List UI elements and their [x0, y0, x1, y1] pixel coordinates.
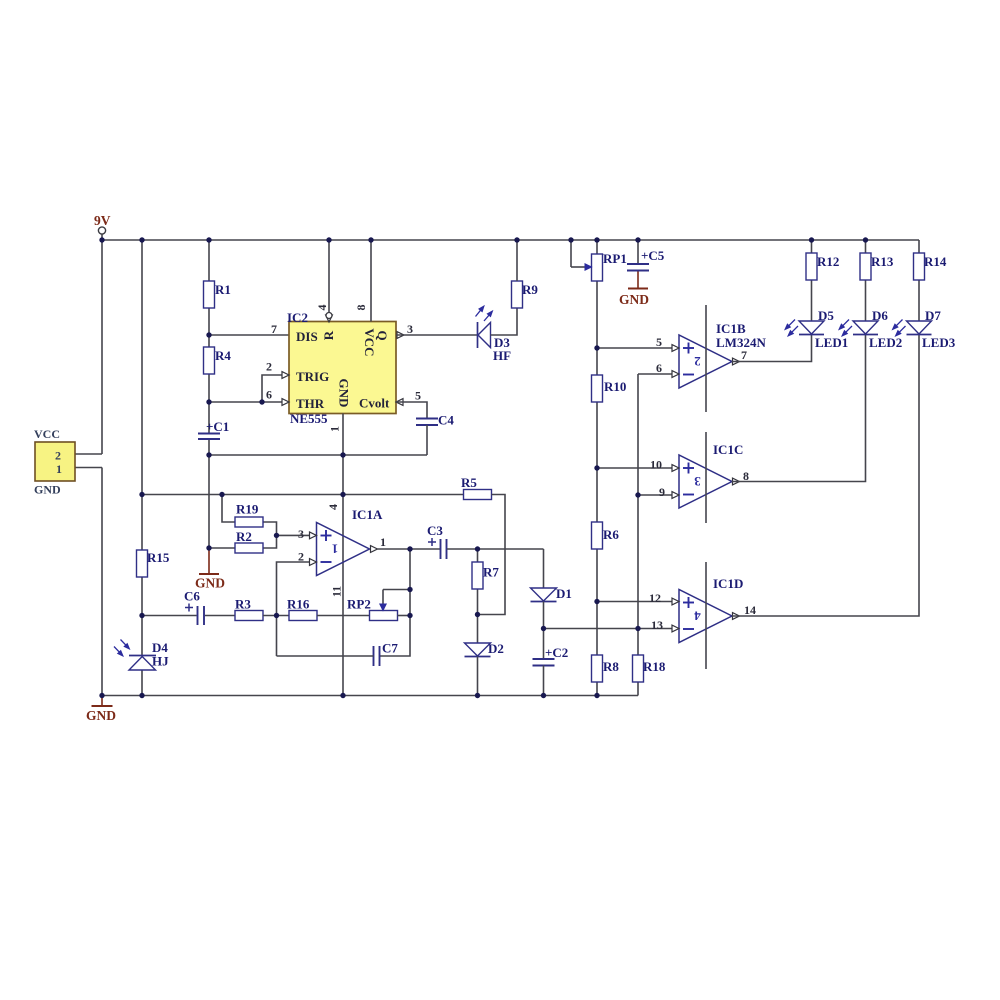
- wire pin3 input wire: [277, 534, 310, 536]
- wire C3 to R7 node: [447, 548, 544, 550]
- svg-text:R16: R16: [287, 597, 310, 612]
- diode D2: [465, 641, 504, 657]
- wire rail 555 ground / C4 return: [209, 454, 427, 456]
- wire R5 right lead down: [478, 495, 506, 615]
- junction top rail @9V: [99, 237, 104, 242]
- capacitor C3: [427, 523, 447, 559]
- svg-text:NE555: NE555: [290, 411, 328, 426]
- svg-text:3: 3: [694, 474, 701, 489]
- wire pin2 input wire / feedback column: [277, 562, 317, 656]
- svg-text:THR: THR: [296, 396, 325, 411]
- svg-text:+C2: +C2: [545, 645, 568, 660]
- wire R2 left lead: [209, 547, 235, 549]
- resistor R15: [137, 550, 170, 577]
- svg-text:D1: D1: [556, 586, 572, 601]
- svg-text:IC1A: IC1A: [352, 507, 383, 522]
- wire R7 branch: [477, 549, 479, 643]
- svg-text:R2: R2: [236, 529, 252, 544]
- svg-text:RP1: RP1: [603, 251, 627, 266]
- arrow pin1 output: [371, 546, 378, 553]
- resistor RP2 (pot): [347, 597, 398, 621]
- arrow pin5 input: [672, 345, 679, 352]
- junction bottom rail @R8: [594, 693, 599, 698]
- junction bottom rail @D2: [475, 693, 480, 698]
- RP1 wiper wire and arrow: [571, 240, 592, 270]
- svg-text:8: 8: [354, 305, 368, 311]
- svg-text:VCC: VCC: [34, 427, 60, 441]
- arrow pin10 input: [672, 465, 679, 472]
- svg-text:IC1B: IC1B: [716, 321, 746, 336]
- junction @wiper row: [407, 587, 412, 592]
- wire R2 right lead: [263, 535, 277, 548]
- resistor R8: [592, 655, 620, 682]
- svg-text:Q: Q: [375, 330, 390, 340]
- svg-text:VCC: VCC: [362, 328, 377, 356]
- svg-text:R9: R9: [522, 282, 538, 297]
- wire connector pin1 stub: [75, 467, 102, 469]
- junction @pin13-R18 node: [635, 626, 640, 631]
- junction @IC1A out: [407, 546, 412, 551]
- wire mid rail to R5: [142, 494, 464, 496]
- LED D5: [785, 308, 848, 350]
- wire left rail lower (pin1 to ground): [101, 468, 103, 696]
- junction top rail @R12: [809, 237, 814, 242]
- junction @R3-R16 node: [274, 613, 279, 618]
- junction bottom rail @left gnd: [99, 693, 104, 698]
- wire D1 cathode to pin13 node: [543, 602, 545, 660]
- svg-text:IC2: IC2: [287, 310, 308, 325]
- junction bottom rail @C2: [541, 693, 546, 698]
- wire IC1A output wire: [378, 548, 441, 550]
- resistor R7: [472, 562, 499, 589]
- wire D2 to ground rail: [477, 657, 479, 696]
- svg-text:13: 13: [651, 618, 663, 632]
- wire R15 column lower (below D4): [141, 670, 143, 696]
- IC1A/555 ground column: [342, 414, 344, 696]
- resistor R19: [235, 502, 263, 528]
- arrow TRIG input: [282, 372, 289, 379]
- svg-text:3: 3: [407, 322, 413, 336]
- svg-text:2: 2: [55, 449, 61, 463]
- svg-text:6: 6: [266, 388, 272, 402]
- wire Q pin3 to D3: [396, 334, 478, 336]
- arrow pin8 output: [733, 478, 740, 485]
- svg-text:4: 4: [326, 504, 340, 510]
- svg-text:R7: R7: [483, 565, 499, 580]
- wire output feedback column x410: [380, 549, 411, 656]
- svg-text:R13: R13: [871, 254, 894, 269]
- junction @R10-R6 pin10: [594, 465, 599, 470]
- svg-text:LED2: LED2: [869, 335, 902, 350]
- svg-text:3: 3: [298, 527, 304, 541]
- junction bottom rail @D4: [139, 693, 144, 698]
- svg-text:6: 6: [656, 361, 662, 375]
- wire RP1 column: [596, 240, 598, 348]
- LED D7: [893, 308, 956, 350]
- svg-text:RP2: RP2: [347, 597, 371, 612]
- junction top rail @pin8: [368, 237, 373, 242]
- svg-text:D6: D6: [872, 308, 888, 323]
- diode D1: [531, 586, 572, 602]
- svg-text:1: 1: [328, 426, 342, 432]
- ground symbol mid (R2/C1 node): [195, 549, 225, 591]
- wire C4 to ground rail: [426, 425, 428, 455]
- svg-text:IC1C: IC1C: [713, 442, 743, 457]
- wire connector pin2 stub: [75, 453, 102, 455]
- svg-text:R18: R18: [643, 659, 666, 674]
- wire R13 column: [865, 240, 867, 321]
- resistor RP1 (pot): [592, 251, 627, 281]
- capacitor C5 (polarized): [627, 248, 665, 271]
- svg-text:R4: R4: [215, 348, 231, 363]
- wire Cvolt pin5 wire: [396, 402, 427, 419]
- resistor R14: [914, 253, 947, 280]
- op-amp U1C (IC1C): [679, 442, 743, 508]
- svg-text:10: 10: [650, 458, 662, 472]
- svg-text:2: 2: [298, 550, 304, 564]
- junction @pin9 node: [635, 492, 640, 497]
- arrow pin7 output: [733, 358, 740, 365]
- op-amp U1B (IC1B): [679, 321, 766, 388]
- wire C6 row left: [142, 615, 197, 617]
- svg-text:C4: C4: [438, 413, 454, 428]
- svg-text:R12: R12: [817, 254, 839, 269]
- op-amp U1A (IC1A): [317, 507, 383, 576]
- resistor R18: [633, 655, 666, 682]
- resistor R1: [204, 281, 231, 308]
- op-amp U1D (IC1D): [679, 576, 743, 643]
- svg-text:R5: R5: [461, 475, 477, 490]
- IC U2 NE555 body: [287, 310, 396, 426]
- svg-text:+C5: +C5: [641, 248, 665, 263]
- svg-text:1: 1: [332, 542, 339, 557]
- junction top rail @R9: [514, 237, 519, 242]
- svg-text:4: 4: [694, 609, 701, 624]
- junction @mid rail IC1A gnd: [340, 492, 345, 497]
- svg-text:C3: C3: [427, 523, 443, 538]
- arrow pin14 output: [733, 613, 740, 620]
- wire pin6 wire: [638, 373, 672, 375]
- arrow pin3 input: [310, 532, 317, 539]
- resistor R6: [592, 522, 620, 549]
- power stub through IC1B: [705, 305, 707, 412]
- svg-text:R8: R8: [603, 659, 619, 674]
- junction @R2 gnd node: [206, 545, 211, 550]
- svg-text:R6: R6: [603, 527, 619, 542]
- wire R19 left lead: [222, 495, 235, 523]
- junction top rail @R13: [863, 237, 868, 242]
- pin 4 reset wire with inverter circle: [326, 240, 333, 322]
- arrow Cvolt input: [396, 399, 403, 406]
- svg-text:7: 7: [741, 348, 747, 362]
- node 9V terminal: [94, 213, 111, 234]
- capacitor C1 (polarized): [198, 419, 229, 439]
- junction @C6 row R15: [139, 613, 144, 618]
- resistor R9: [512, 281, 539, 308]
- power stub through IC1D: [705, 562, 707, 669]
- svg-text:C6: C6: [184, 589, 200, 604]
- junction @C1 ground rail: [206, 452, 211, 457]
- junction @R1-R4 pin7: [206, 332, 211, 337]
- svg-text:GND: GND: [337, 379, 352, 408]
- svg-text:9: 9: [659, 485, 665, 499]
- junction top rail @R15: [139, 237, 144, 242]
- wire left rail upper (9V to connector pin2): [101, 235, 103, 455]
- resistor R5: [461, 475, 492, 500]
- wire R1/R4 column upper: [208, 240, 210, 434]
- wire R16 to RP2: [317, 615, 370, 617]
- resistor R10: [592, 375, 627, 402]
- junction top rail @RP1: [594, 237, 599, 242]
- wire R1/R4 column lower (C1 to R2 node): [208, 439, 210, 549]
- svg-text:7: 7: [271, 322, 277, 336]
- wire R9 top lead: [516, 240, 518, 281]
- junction top rail @C5: [635, 237, 640, 242]
- wire pin9 wire: [638, 494, 672, 496]
- wire TRIG pin2 wire: [262, 375, 289, 402]
- wire D3 to R9: [491, 308, 518, 335]
- junction @R6-R8 pin12: [594, 599, 599, 604]
- arrow pin13 input: [672, 625, 679, 632]
- wire IC1C output to LED2: [732, 335, 866, 482]
- wire R3 to R16: [263, 615, 289, 617]
- pin 8 VCC wire: [370, 240, 372, 322]
- wire THR pin6 wire: [209, 401, 289, 403]
- junction @mid rail R19: [219, 492, 224, 497]
- wire node to D1: [543, 549, 545, 588]
- LED D3 (emitter): [476, 306, 512, 363]
- junction top rail @RP1 wiper: [568, 237, 573, 242]
- LED D6: [839, 308, 902, 350]
- svg-text:9V: 9V: [94, 213, 111, 228]
- wire C2 to ground rail: [543, 666, 545, 696]
- junction top rail @pin4: [326, 237, 331, 242]
- junction top rail @R1: [206, 237, 211, 242]
- svg-text:C7: C7: [382, 641, 398, 656]
- svg-text:R: R: [321, 330, 336, 340]
- junction @C3-R7 node: [475, 546, 480, 551]
- resistor R4: [204, 347, 232, 374]
- wire IC1D output to LED3: [732, 335, 919, 617]
- svg-text:GND: GND: [34, 483, 61, 497]
- junction @mid rail R15: [139, 492, 144, 497]
- arrow pin6 input: [672, 371, 679, 378]
- wire R12 column: [811, 240, 813, 321]
- capacitor C2 (polarized): [533, 645, 569, 666]
- junction @RP2 right: [407, 613, 412, 618]
- resistor R2: [235, 529, 263, 553]
- wire IC1B output to LED1: [732, 335, 812, 362]
- junction @D1-pin13 node: [541, 626, 546, 631]
- svg-text:D5: D5: [818, 308, 834, 323]
- resistor R13: [860, 253, 894, 280]
- wire C7 left lead: [277, 655, 374, 657]
- wire pin5 wire: [597, 347, 672, 349]
- svg-text:14: 14: [744, 603, 756, 617]
- svg-text:1: 1: [380, 535, 386, 549]
- resistor R3: [235, 597, 263, 621]
- wire DIS pin7 wire: [209, 334, 289, 336]
- svg-text:4: 4: [315, 305, 329, 311]
- svg-text:D7: D7: [925, 308, 941, 323]
- arrow Q output: [397, 332, 404, 339]
- svg-text:D2: D2: [488, 641, 504, 656]
- svg-text:2: 2: [694, 354, 701, 369]
- arrow pin9 input: [672, 492, 679, 499]
- svg-text:GND: GND: [86, 708, 116, 723]
- photodiode D4 (receiver): [114, 640, 169, 671]
- svg-text:5: 5: [656, 335, 662, 349]
- svg-text:TRIG: TRIG: [296, 369, 329, 384]
- junction bottom rail @IC1A: [340, 693, 345, 698]
- svg-text:R19: R19: [236, 502, 259, 517]
- svg-text:R10: R10: [604, 379, 626, 394]
- wire pin12 wire: [597, 601, 672, 603]
- junction @R4-C1 pin6: [206, 399, 211, 404]
- connector J1 VCC/GND: [34, 427, 75, 497]
- arrow THR input: [282, 399, 289, 406]
- wire R10/R6/R8 divider column: [596, 348, 598, 696]
- svg-text:R1: R1: [215, 282, 231, 297]
- wire C6 to R3: [205, 615, 235, 617]
- resistor R16: [287, 597, 317, 621]
- wire RP2 right lead: [398, 615, 411, 617]
- svg-text:IC1D: IC1D: [713, 576, 743, 591]
- wire R14 column: [918, 240, 920, 321]
- svg-text:Cvolt: Cvolt: [359, 396, 390, 411]
- junction @R7-D2 node: [475, 612, 480, 617]
- wire bottom ground rail: [102, 695, 638, 697]
- ground symbol at C5: [619, 271, 649, 308]
- svg-text:2: 2: [266, 360, 272, 374]
- svg-text:1: 1: [56, 462, 62, 476]
- capacitor C4: [416, 413, 454, 428]
- svg-text:11: 11: [330, 586, 344, 597]
- wire R19 right lead: [263, 522, 277, 535]
- wire inverting input column (pins 6/9/13): [637, 374, 639, 696]
- svg-text:DIS: DIS: [296, 329, 318, 344]
- power stub through IC1C: [705, 432, 707, 523]
- svg-text:R14: R14: [924, 254, 947, 269]
- svg-text:+C1: +C1: [206, 419, 229, 434]
- resistor R12: [806, 253, 839, 280]
- wire pin13 wire: [544, 628, 673, 630]
- wire pin10 wire: [597, 467, 672, 469]
- svg-text:12: 12: [649, 591, 661, 605]
- junction @555 gnd column: [340, 452, 345, 457]
- wire top 9V power rail: [102, 239, 919, 241]
- svg-text:R15: R15: [147, 550, 170, 565]
- svg-text:5: 5: [415, 389, 421, 403]
- svg-text:GND: GND: [619, 292, 649, 307]
- capacitor C7: [374, 641, 399, 667]
- wire C5 top lead: [637, 240, 639, 264]
- ground symbol bottom-left: [86, 696, 116, 724]
- svg-text:HJ: HJ: [152, 654, 169, 669]
- svg-text:LED1: LED1: [815, 335, 848, 350]
- svg-text:LED3: LED3: [922, 335, 956, 350]
- RP2 wiper wire and arrow: [380, 590, 410, 611]
- wire R15 column upper: [141, 240, 143, 656]
- svg-text:HF: HF: [493, 348, 511, 363]
- arrow pin2 input: [310, 559, 317, 566]
- junction @TRIG branch: [259, 399, 264, 404]
- svg-text:R3: R3: [235, 597, 251, 612]
- junction @RP1-R10 pin5: [594, 345, 599, 350]
- arrow pin12 input: [672, 598, 679, 605]
- junction @pin3 node: [274, 533, 279, 538]
- capacitor C6: [184, 589, 204, 626]
